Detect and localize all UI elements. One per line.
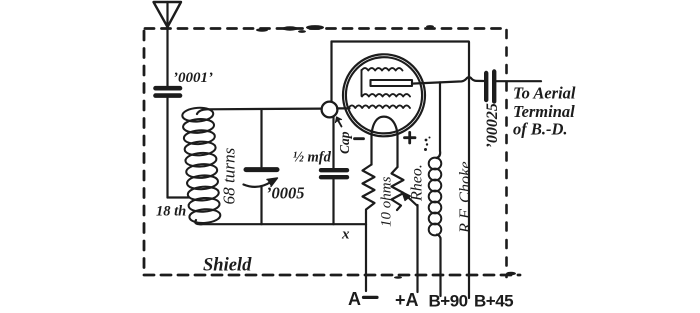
svg-text:To Aerial: To Aerial [513, 84, 576, 103]
ink smudge blobs on top border [256, 25, 516, 279]
grid cap circle [322, 102, 338, 118]
wire coil top to grid cap (grid wire) [197, 109, 323, 114]
resistor R1 10 ohms zigzag [363, 165, 375, 214]
coil tap wire (18th turn) [168, 196, 189, 198]
grid cap stub into tube [337, 107, 349, 109]
svg-text:Cap: Cap [337, 131, 352, 154]
shield dashed border bottom [144, 274, 520, 277]
RF choke L2 loops [429, 158, 442, 236]
wire grid cap node down to C3 [332, 117, 334, 168]
tube V1 envelope inner [346, 57, 422, 133]
rheostat R2 zigzag [392, 167, 404, 210]
svg-text:18 th: 18 th [156, 204, 186, 220]
tube V1 envelope outer [343, 54, 425, 136]
svg-text:’0005: ’0005 [266, 184, 305, 203]
wire coil bottom into bus [195, 220, 202, 224]
tube left filament leg [370, 134, 372, 165]
rheostat arrow tap [405, 195, 418, 207]
top bypass wire horizontal [332, 40, 469, 42]
svg-text:x: x [341, 227, 350, 243]
svg-text:68 turns: 68 turns [220, 147, 239, 204]
minus mark at left filament leg [355, 137, 364, 140]
RF choke bottom wire to B+90 [437, 235, 441, 297]
shield dashed border right [505, 30, 508, 277]
svg-text:½ mfd: ½ mfd [293, 150, 332, 166]
plate lead wire with hop over B+45 [412, 77, 484, 83]
tube screen grid folded wavy [362, 68, 403, 70]
bottom bus wire [200, 223, 366, 225]
tube control grid wavy [349, 105, 410, 108]
capacitor C1 .0001 plates [156, 86, 181, 91]
svg-text:+A: +A [395, 290, 419, 310]
wire C2 to bus [260, 187, 262, 225]
wire bus to variable capacitor C2 [260, 109, 262, 166]
svg-text:B+90: B+90 [429, 292, 468, 311]
capacitor C3 half mfd plates [321, 168, 347, 172]
coil L1 68 turns [182, 107, 221, 224]
wire rheostat tap to +A terminal [416, 205, 418, 292]
wire R1 to A- terminal [365, 213, 367, 291]
small ink smudge near plus [424, 137, 431, 152]
RF choke top wire from plate lead [437, 82, 441, 158]
capacitor C4 .00025 plates [484, 73, 488, 100]
wire C3 to bus [332, 179, 334, 224]
wire C1 to coil tap [166, 98, 168, 198]
Cap label arrow [337, 119, 342, 127]
B+45 wire [468, 42, 470, 298]
shield dashed border top [145, 27, 505, 30]
top bypass wire rectangle left vertical [330, 42, 332, 103]
svg-text:’00025: ’00025 [484, 103, 501, 148]
svg-text:’0001’: ’0001’ [173, 70, 213, 86]
svg-text:Shield: Shield [203, 256, 252, 276]
variable capacitor C2 .0005 top plate [246, 167, 277, 172]
tube plate bar [371, 80, 413, 86]
plus mark at right filament leg [405, 132, 416, 143]
svg-text:10 ohms: 10 ohms [379, 176, 395, 227]
wire antenna to C1 [166, 27, 168, 86]
svg-text:A: A [348, 289, 361, 309]
output wire to aerial terminal [497, 80, 542, 82]
svg-text:Rheo.: Rheo. [409, 164, 426, 202]
tube right filament leg [396, 134, 398, 168]
svg-text:of B.-D.: of B.-D. [513, 120, 568, 139]
svg-text:R.F. Choke: R.F. Choke [455, 161, 474, 234]
svg-text:Terminal: Terminal [513, 102, 575, 121]
antenna [154, 2, 182, 27]
svg-text:B+45: B+45 [474, 292, 513, 311]
variable capacitor C2 rotor arrow [244, 182, 272, 187]
tube filament hump [372, 117, 398, 134]
shield dashed border left [143, 31, 146, 276]
